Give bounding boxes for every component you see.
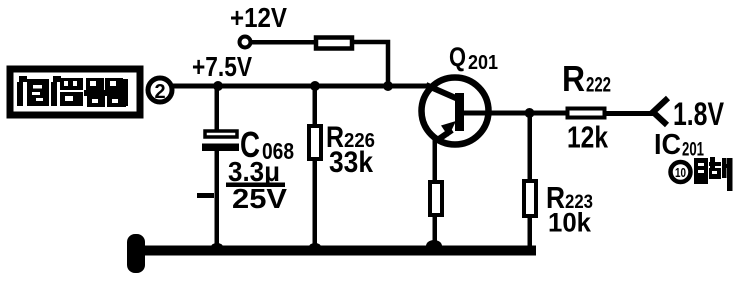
transistor Q201 circle — [422, 78, 489, 145]
svg-text:IC: IC — [654, 129, 681, 161]
resistor R226 body — [309, 126, 321, 159]
svg-text:12k: 12k — [567, 120, 609, 155]
transistor Q201 emitter stroke with arrow — [436, 130, 452, 141]
wire: base lead to R222 — [464, 111, 567, 116]
+12V terminal circle — [240, 37, 251, 48]
resistor R222 body — [568, 109, 605, 118]
transistor Q201 collector stroke — [426, 85, 458, 99]
terminal node circled 2 — [148, 78, 172, 102]
svg-text:+12V: +12V — [230, 2, 287, 33]
svg-text:10k: 10k — [548, 208, 592, 238]
capacitor C068 bottom plate — [202, 144, 239, 152]
rail junction bump at C068 — [211, 243, 223, 251]
ground terminal blob — [127, 234, 145, 273]
capacitor polarity dash — [197, 193, 214, 198]
svg-text:33k: 33k — [329, 146, 373, 179]
svg-text:25V: 25V — [232, 183, 287, 214]
emitter resistor body — [430, 182, 442, 215]
svg-text:222: 222 — [586, 74, 611, 97]
wire: emitter resistor to ground rail — [433, 215, 438, 251]
junction dot at R226 tap — [310, 81, 320, 91]
ground rail — [140, 246, 536, 256]
wire: emitter down to resistor — [433, 140, 438, 182]
wire: rail down to C068 — [215, 86, 220, 130]
wire: R223 to ground rail — [528, 216, 533, 251]
wire: feed resistor to rail — [352, 42, 388, 86]
tuner box (调谐器) — [10, 69, 140, 115]
label 脚 (pin) glyph — [694, 157, 733, 191]
svg-text:R: R — [562, 58, 585, 99]
svg-text:10: 10 — [675, 165, 686, 180]
rail junction blob at emitter — [426, 240, 442, 252]
svg-text:2: 2 — [154, 81, 165, 103]
svg-text:+7.5V: +7.5V — [192, 51, 252, 82]
svg-text:201: 201 — [682, 140, 704, 161]
resistor R223 body — [524, 181, 536, 216]
connector chevron to IC201 pin — [653, 98, 668, 125]
junction dot at base/R223 — [525, 108, 535, 118]
junction dot at C068 tap — [213, 81, 223, 91]
wire: C068 to ground rail — [215, 151, 220, 251]
wire: +12V terminal to feed resistor — [250, 40, 316, 45]
wire: junction down to R223 — [528, 113, 533, 181]
tuner box text 调谐器 — [17, 76, 128, 107]
wire: R226 to ground rail — [313, 159, 318, 251]
wire: R222 to IC pin — [606, 111, 654, 116]
fraction bar — [226, 183, 285, 188]
label pin 10 circled — [671, 162, 691, 182]
wire: node 2 to rail and +7.5V rail — [172, 84, 429, 89]
resistor (feed from +12V, unlabeled) — [316, 38, 352, 49]
rail junction bump at R226 — [309, 243, 321, 251]
junction dot at +12V feed — [383, 81, 393, 91]
svg-text:201: 201 — [468, 52, 498, 74]
svg-text:1.8V: 1.8V — [673, 96, 725, 132]
transistor Q201 base bar — [455, 93, 464, 131]
wire: rail down to R226 — [313, 86, 318, 126]
svg-text:Q: Q — [449, 42, 466, 72]
capacitor C068 top plate — [205, 131, 237, 137]
